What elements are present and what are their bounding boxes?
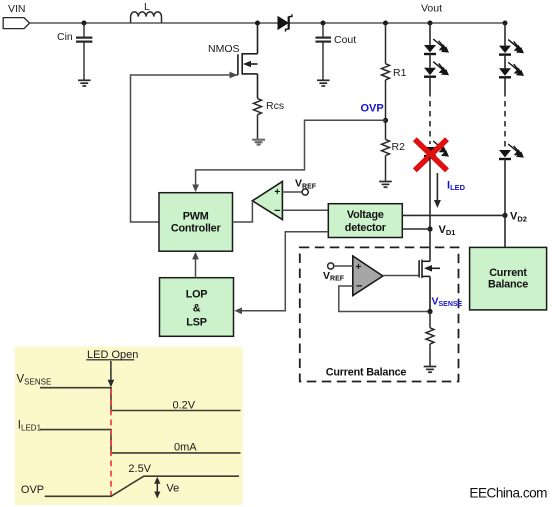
dashed box Current Balance [300, 247, 459, 381]
wire voltage detector to LOP/LSP [234, 232, 328, 314]
wire [429, 23, 431, 45]
svg-text:Cout: Cout [334, 34, 356, 46]
ground (Cin) [78, 80, 91, 86]
svg-text:0.2V: 0.2V [173, 400, 196, 412]
svg-text:OVP: OVP [361, 103, 384, 115]
trace OVP [45, 476, 239, 496]
voltage detector U2 [328, 204, 402, 238]
LED D2a [499, 40, 524, 55]
LED D2b [499, 62, 524, 77]
svg-text:Voltage: Voltage [347, 209, 384, 221]
svg-text:+: + [274, 187, 280, 198]
ground (R2) [379, 182, 392, 188]
svg-text:LSP: LSP [186, 317, 206, 329]
wire dashed string2 [504, 91, 506, 147]
trace Vsense [40, 388, 241, 411]
terminal VREF (top) [282, 178, 316, 196]
LED D2c [499, 144, 524, 159]
wire voltage detector to VD1 [402, 228, 430, 230]
node Vsense [427, 309, 432, 314]
LOP & LSP U3 [160, 278, 234, 337]
svg-text:Rcs: Rcs [266, 100, 284, 112]
ground (Rcs, gray) [252, 140, 265, 145]
node VD1 [427, 226, 432, 231]
wire op-amp A2 output to gate [383, 275, 419, 277]
node junction Cout [321, 21, 326, 26]
wire op-amp minus to voltage detector [282, 209, 328, 211]
CONTROL BLOCKS [159, 178, 547, 382]
wire OVP to PWM top [192, 120, 385, 192]
node VD2 [502, 213, 507, 218]
svg-text:+: + [356, 262, 362, 273]
transistor Q2 (current balance MOSFET) [419, 260, 440, 312]
PWM controller U1 [159, 193, 233, 252]
diode D (schottky) [278, 14, 292, 31]
svg-text:L: L [144, 1, 150, 13]
svg-text:Current: Current [489, 267, 527, 279]
capacitor Cin [57, 23, 92, 80]
svg-text:NMOS: NMOS [208, 43, 240, 55]
resistor Rcs [254, 99, 285, 140]
op-amp A2 (current balance, gray) [353, 256, 383, 296]
current balance block U4 [470, 247, 547, 310]
wire gate to PWM [131, 72, 238, 222]
node junction Cin [82, 21, 87, 26]
node junction NMOS drain [255, 21, 260, 26]
arrow LED open event [110, 361, 112, 382]
wire feedback minus to Vsense [339, 286, 430, 312]
svg-text:R2: R2 [392, 141, 406, 153]
node junction LED string 1 [428, 21, 433, 26]
svg-text:0mA: 0mA [174, 442, 197, 454]
transistor NMOS [208, 23, 258, 99]
LED strings [415, 21, 527, 262]
svg-text:Ve: Ve [166, 483, 179, 495]
svg-text:&: & [193, 303, 201, 315]
terminal VREF (dashed box) [323, 263, 353, 283]
svg-text:−: − [274, 205, 280, 217]
LED D1b [424, 62, 449, 77]
wire op-amp output to PWM [233, 201, 253, 222]
resistor R2 [382, 120, 406, 181]
arrow LOP to PWM [192, 252, 199, 278]
node junction LED string 2 [503, 21, 508, 26]
svg-text:detector: detector [345, 222, 387, 234]
svg-text:OVP: OVP [21, 484, 44, 496]
arrow ILED [434, 173, 466, 208]
svg-text:−: − [356, 281, 362, 293]
svg-text:Cin: Cin [57, 31, 73, 43]
capacitor Cout [316, 23, 357, 80]
wire top rail [30, 22, 506, 24]
svg-text:R1: R1 [393, 67, 407, 79]
wire [429, 157, 431, 229]
wire VD1 down to mosfet [429, 229, 431, 261]
svg-text:VIN: VIN [8, 3, 26, 15]
trace Iled1 [40, 430, 241, 453]
red dashed event line [110, 389, 112, 496]
LED D1x (open, crossed) [424, 141, 449, 157]
svg-text:Vout: Vout [421, 3, 442, 15]
svg-text:Controller: Controller [171, 222, 222, 234]
svg-text:PWM: PWM [183, 210, 209, 222]
svg-text:LOP: LOP [186, 289, 208, 301]
node junction R1 top [383, 21, 388, 26]
VIN connector [3, 3, 29, 29]
wire dashed string1 [429, 91, 431, 144]
ground (Rsense) [424, 367, 437, 373]
resistor Rsense [426, 312, 434, 367]
WAVEFORM INSET [15, 347, 243, 505]
svg-text:2.5V: 2.5V [128, 463, 151, 475]
inductor L [131, 1, 162, 23]
red X (open LED) [415, 139, 447, 170]
svg-text:Balance: Balance [488, 279, 528, 291]
wire voltage detector to VD2 [402, 214, 505, 216]
wire VD2 to current balance box [504, 215, 506, 247]
LED D1a [424, 39, 449, 54]
arrow Ve (double) [154, 477, 179, 499]
resistor R1 [382, 23, 407, 120]
op-amp A1 (error amp) [252, 182, 282, 220]
ground (Cout) [317, 80, 330, 86]
node OVP [383, 118, 388, 123]
svg-text:EEChina.com: EEChina.com [469, 485, 547, 500]
plot background [15, 347, 243, 505]
svg-text:Current Balance: Current Balance [326, 367, 407, 379]
